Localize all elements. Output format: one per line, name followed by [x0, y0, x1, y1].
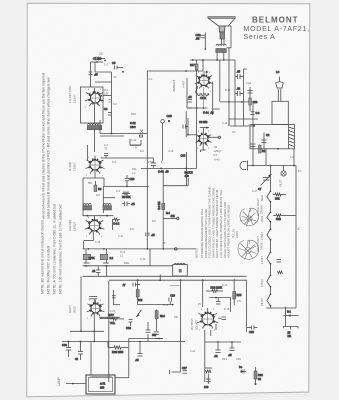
variable capacitor arrow	[258, 174, 272, 191]
power entry box	[86, 375, 115, 394]
resistor R11 vertical	[83, 249, 95, 263]
wire speaker frame to OT	[227, 26, 232, 48]
wire: V3 cathode L	[84, 232, 94, 249]
tube pin number specks	[85, 72, 216, 332]
left notes rotated text (2 lines)	[42, 73, 51, 219]
wire: x294.5 down from coil box	[277, 148, 294, 166]
B+ cluster bottom right	[239, 365, 246, 374]
NOTE block rotated (4 lines)	[41, 204, 63, 294]
capacitor C17	[123, 283, 140, 288]
wire: V1 to V2	[87, 130, 94, 160]
loop antenna hood rectangle	[272, 101, 288, 124]
resistor R16b horizontal	[206, 286, 223, 293]
resistor R11b labels	[132, 167, 137, 175]
resistor R21 heater tap	[273, 193, 286, 200]
small parts between buses	[251, 126, 267, 165]
wire: x181 vertical to bottom	[170, 280, 181, 374]
capacitor C6 on x111.5	[104, 107, 112, 115]
wire: bus y119	[229, 119, 258, 126]
heater V5 filament	[267, 294, 271, 307]
wire: y305 line	[138, 304, 174, 306]
switch parts above bus	[146, 322, 164, 342]
capacitor C24b	[277, 260, 282, 263]
resistor R10 horizontal + label	[112, 218, 120, 230]
label output tube rotated	[190, 318, 199, 330]
capacitor C5	[112, 61, 124, 73]
V5 text labels	[214, 145, 223, 162]
heater V7 filament	[267, 212, 271, 223]
label 2nd det rotated	[68, 219, 77, 231]
wire: long vertical x187	[186, 78, 192, 137]
resistor R16 meander (grid)	[195, 86, 209, 100]
wire: y331 bus	[70, 330, 104, 332]
label 35A5/GT rotated	[172, 80, 186, 92]
tube V2 12SK7 IF amp	[86, 156, 105, 174]
label 1st det-osc rotated	[68, 85, 77, 103]
wire: x109 long vertical	[108, 281, 110, 382]
heater V2 filament	[267, 252, 271, 265]
tube V1 12SA7 converter	[85, 88, 104, 123]
dial diagram captions	[233, 198, 264, 252]
wire: V2 plate right y158	[101, 154, 154, 159]
wire: V7 heater drop	[94, 313, 120, 342]
wire: x91 drop to power box	[90, 342, 92, 376]
tube V4 35A5 output	[195, 71, 213, 91]
wire: V4 cathode region	[187, 87, 214, 115]
heater V3 filament	[267, 275, 271, 288]
label rect tube rotated	[68, 305, 77, 313]
resistor R25 vertical bottom right	[254, 367, 263, 385]
pilot lamp PL	[281, 166, 286, 177]
wire: bus y280 long	[109, 275, 247, 282]
wire: bus y126 top of antenna box area	[230, 112, 260, 127]
capacitor C24	[214, 342, 221, 358]
speaker SP1	[208, 17, 236, 26]
IF transformer T1 hatch	[87, 124, 102, 130]
wire: x229.5 from OT	[228, 48, 230, 126]
V5 plate lead with terminal	[208, 136, 220, 138]
resistor network bottom	[204, 368, 212, 389]
capacitor C-13	[151, 158, 156, 168]
wire: bus y186	[103, 186, 148, 214]
capacitor C21 near speaker	[196, 32, 207, 50]
dial stringing diagram A	[240, 208, 259, 227]
wire: bus y249 open terminal	[175, 248, 178, 251]
wire: bus y341	[62, 341, 185, 343]
wire: bus y165	[247, 165, 296, 167]
wire: bus y198	[103, 197, 115, 199]
wires below V6	[205, 324, 241, 382]
tube V6 50L6 output	[197, 308, 218, 328]
capacitor C23 right of V6	[218, 317, 226, 320]
resistor R12b on x163	[158, 202, 179, 220]
oscillator coil labels cluster	[130, 121, 143, 145]
V5 top lead	[199, 120, 209, 129]
osc trim step	[130, 139, 141, 149]
capacitor C15b	[235, 70, 244, 80]
capacitor C27	[182, 366, 187, 373]
dial stringing diagram B	[238, 240, 259, 260]
resistor R12 vertical	[100, 249, 113, 263]
heater labels rotated	[260, 195, 264, 306]
wire: x113.5 right of V7	[112, 290, 120, 305]
pilot lamp label LAMP	[57, 377, 86, 386]
resistor R14 vertical	[154, 310, 165, 335]
wire: bus y266	[83, 249, 173, 267]
wire: bus y62 top left	[91, 57, 104, 88]
capacitor C30	[62, 342, 71, 358]
capacitor C12b	[103, 263, 109, 266]
heater V1 filament	[267, 229, 271, 241]
wire: bus y133	[100, 120, 147, 136]
volume pot R13	[100, 310, 141, 325]
IF transformer T2 hatch pair	[83, 203, 112, 210]
capacitor C4 top	[96, 57, 106, 62]
resistor R23 heater tap	[273, 214, 296, 221]
tube V7 rect 35Z5 left bottom	[87, 300, 105, 317]
capacitor C14b on x148	[146, 232, 155, 237]
wire: x196.6 long vertical	[196, 75, 198, 168]
heater chain spine	[266, 166, 296, 309]
scattered part-value labels	[88, 53, 302, 354]
wire: right bus x296	[295, 166, 297, 309]
capacitor C11	[122, 202, 135, 207]
output transformer T3	[216, 44, 227, 60]
resistor R8	[94, 181, 102, 192]
wire: x235 vertical	[232, 60, 235, 126]
wire: x219.8 vertical	[220, 60, 253, 126]
resistor R26 bottom of bus	[283, 307, 298, 338]
capacitor C32	[135, 342, 143, 363]
resistor R15 cluster right	[248, 87, 258, 111]
capacitor C13 (left of V4 bottom)	[188, 95, 193, 102]
capacitor C18	[169, 294, 176, 305]
wire: bus y72	[95, 62, 112, 72]
tube V3 2nd det 12SQ7	[85, 216, 105, 235]
capacitor C3 inside antenna box	[262, 133, 270, 149]
wire: x188 feed to V5	[187, 118, 196, 136]
capacitor C12a	[84, 263, 90, 266]
resistor R13 vertical	[136, 281, 143, 305]
field coil box	[173, 263, 188, 276]
heater V6 filament	[267, 191, 271, 203]
wire: bus y216	[83, 215, 113, 217]
tube V5 12SQ7 right	[196, 128, 212, 146]
capacitor C28	[247, 326, 258, 335]
resistor R24b	[278, 271, 283, 274]
wire: V2 cathode down	[83, 171, 104, 216]
labels above bottom cluster	[222, 357, 241, 361]
wire: bus y276 long	[81, 266, 191, 332]
wire bus under OT	[190, 59, 232, 61]
resistor R9 horizontal	[122, 192, 131, 199]
capacitor C25	[228, 342, 235, 357]
tuning gang symbol	[240, 161, 248, 171]
loop antenna coil box	[250, 125, 295, 149]
capacitor C2a on vertical	[89, 72, 99, 77]
capacitor C12	[92, 266, 101, 277]
capacitor C16	[235, 87, 244, 97]
resistor R20 horizontal	[108, 342, 128, 355]
converter shield box	[81, 87, 104, 123]
capacitor C8 left of V5	[183, 125, 188, 129]
wire: bus y249 long	[83, 248, 196, 250]
speaker voice coil	[219, 26, 225, 44]
capacitor C10 on x127	[125, 175, 135, 186]
V5 cathode bracket	[201, 143, 206, 152]
resistor R17 vertical	[190, 59, 204, 75]
wire: y298 line	[209, 297, 230, 312]
right notes rotated text block	[195, 186, 231, 258]
resistor R18 vertical	[233, 279, 242, 305]
wire: chassis box left edge	[146, 71, 148, 249]
capacitor C31	[75, 342, 83, 362]
capacitor C22	[216, 298, 220, 304]
wire: AVC bus y168	[141, 152, 197, 186]
wire: vertical x111.5	[95, 72, 112, 120]
wire: x243.5 vertical	[244, 69, 248, 126]
wire: long vertical x163	[161, 114, 172, 249]
wire: x212.7 vertical right of V4	[213, 82, 220, 116]
capacitor C-top above V7	[89, 297, 97, 304]
title block	[244, 16, 310, 42]
wire: bus y276	[191, 276, 247, 332]
wire: chassis box top edge	[147, 60, 203, 72]
label IF amp rotated	[68, 161, 77, 171]
loop antenna horn	[276, 70, 283, 101]
wire: bus y338	[115, 338, 163, 377]
capacitor C19	[126, 320, 133, 330]
